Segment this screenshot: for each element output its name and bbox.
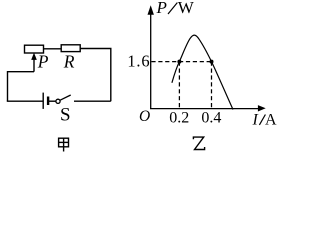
- bottom wire left to battery: [7, 100, 43, 102]
- svg-text:0.4: 0.4: [201, 110, 221, 127]
- svg-text:A: A: [265, 111, 277, 128]
- wire battery to switch: [49, 100, 56, 102]
- slider arrow stem: [33, 59, 35, 72]
- left vertical wire: [7, 71, 9, 101]
- rheostat P box: [25, 45, 44, 53]
- svg-text:P: P: [37, 51, 49, 71]
- data point at (0.4,1.6): [210, 60, 214, 64]
- switch blade: [60, 95, 71, 100]
- svg-text:W: W: [178, 0, 195, 17]
- caption jia (甲): [59, 138, 69, 151]
- switch pivot circle: [56, 99, 60, 103]
- svg-text:0.2: 0.2: [169, 110, 189, 127]
- dashed vertical at 0.4: [211, 62, 213, 109]
- resistor R box: [61, 45, 80, 52]
- svg-text:S: S: [60, 105, 71, 126]
- x-axis arrow: [258, 105, 266, 111]
- caption yi (乙): [193, 137, 204, 149]
- svg-text:R: R: [63, 51, 75, 71]
- x-axis: [150, 108, 259, 110]
- data point at (0.2,1.6): [177, 60, 181, 64]
- wire between P box and R box: [44, 48, 62, 50]
- slider arrow head on rheostat: [31, 53, 37, 60]
- P-I curve: [172, 35, 233, 109]
- dashed horizontal line at 1.6: [151, 61, 211, 63]
- wire bottom right from switch to right corner: [74, 100, 111, 102]
- battery short thick plate: [47, 97, 49, 106]
- svg-text:I: I: [252, 111, 259, 128]
- battery long plate: [42, 93, 44, 109]
- svg-text:P: P: [156, 0, 167, 17]
- svg-text:1.6: 1.6: [127, 52, 150, 71]
- wire jog from stem left: [8, 71, 35, 73]
- svg-text:O: O: [139, 108, 150, 125]
- y-axis arrow: [148, 5, 154, 15]
- y-axis: [150, 13, 152, 109]
- wire R to top-right corner and right side down: [80, 49, 111, 102]
- dashed vertical at 0.2: [178, 62, 180, 109]
